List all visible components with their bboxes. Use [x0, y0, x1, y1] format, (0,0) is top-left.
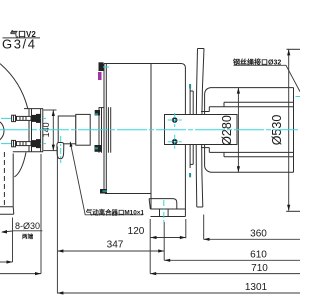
- brake cyan tick: [189, 84, 191, 89]
- motor hidden line (dashed): [3, 152, 5, 205]
- svg-text:360: 360: [250, 229, 267, 240]
- svg-text:两端: 两端: [22, 232, 34, 240]
- drum barrel: [201, 88, 294, 173]
- bracket plate: [13, 109, 43, 152]
- bottom-left mark cyan tick: [103, 190, 108, 192]
- extension line x12.5: [12, 218, 14, 263]
- extension line x42.7: [40, 154, 42, 274]
- svg-text:8-Ø30: 8-Ø30: [15, 221, 40, 231]
- dim 610: [164, 250, 300, 262]
- drum left flange (dished disc): [196, 49, 204, 208]
- teal tick on bottom blob: [94, 147, 98, 149]
- bracket foot: [0, 207, 14, 214]
- coupling rect2: [76, 114, 90, 145]
- extension line x185.8: [185, 219, 187, 238]
- gearbox housing outline: [104, 64, 185, 217]
- gearbox top-left plug (black): [99, 62, 104, 71]
- gearbox foot pad: [149, 199, 177, 209]
- rail bolt2: [168, 135, 182, 149]
- svg-text:120: 120: [128, 226, 145, 237]
- extension line x57.4: [56, 147, 58, 294]
- motor housing big arc: [0, 64, 28, 109]
- dim 360: [204, 229, 301, 241]
- dim 710: [150, 263, 300, 275]
- bolt B2 centerline: [1, 143, 46, 145]
- label port V2 fraction bar: [3, 37, 41, 39]
- svg-text:气动离合器口M10×1: 气动离合器口M10×1: [85, 207, 145, 216]
- cropped dim stub y262: [0, 260, 13, 263]
- svg-text:G3/4: G3/4: [2, 37, 37, 52]
- bolt B1 centerline: [1, 117, 46, 119]
- extension line x151.9: [149, 219, 151, 274]
- clutch port leader: [70, 142, 143, 215]
- foot centerline: [163, 200, 165, 222]
- drum right flange (cropped): [286, 49, 300, 211]
- motor face plate: [94, 107, 104, 153]
- bracket column and fillet: [13, 152, 26, 207]
- svg-text:710: 710: [251, 263, 268, 274]
- drain pin under coupling: [57, 143, 64, 159]
- dim 347: [57, 240, 164, 253]
- label port V2 text: [9, 29, 36, 39]
- motor shaft boss arc: [0, 122, 4, 140]
- extension line x203.5: [203, 215, 205, 240]
- dim 1301: [57, 282, 300, 294]
- frame rail block: [165, 115, 238, 145]
- svg-text:1301: 1301: [245, 282, 268, 293]
- dim 120: [128, 226, 186, 239]
- extension line x164.5: [163, 222, 165, 260]
- rope port underline and leader: [234, 65, 301, 91]
- pin centerline: [60, 136, 62, 163]
- svg-text:Ø280: Ø280: [220, 115, 234, 146]
- bolt B2: [12, 139, 41, 148]
- hole note 8-phi30: [1, 221, 42, 240]
- gearbox base slab: [150, 209, 185, 217]
- gearbox magenta plug: [98, 72, 102, 80]
- node main-centerline: [0, 129, 298, 131]
- gearbox corner cyan tick: [103, 66, 109, 68]
- dim phi280: [220, 88, 240, 173]
- brake lines left of flange: [190, 87, 193, 169]
- cropped dim stub y273: [0, 272, 41, 275]
- bolt B1: [12, 114, 41, 123]
- gearbox bottom-left flange mark: [100, 189, 107, 194]
- dimension 140: [41, 110, 56, 151]
- rail bolt1: [168, 113, 182, 127]
- dim phi530: [270, 49, 290, 210]
- brake cyan tick bottom: [189, 173, 191, 177]
- right flange cyan tick: [296, 96, 301, 98]
- svg-text:610: 610: [250, 250, 267, 261]
- coupling rect1: [58, 116, 76, 144]
- svg-text:347: 347: [107, 240, 124, 251]
